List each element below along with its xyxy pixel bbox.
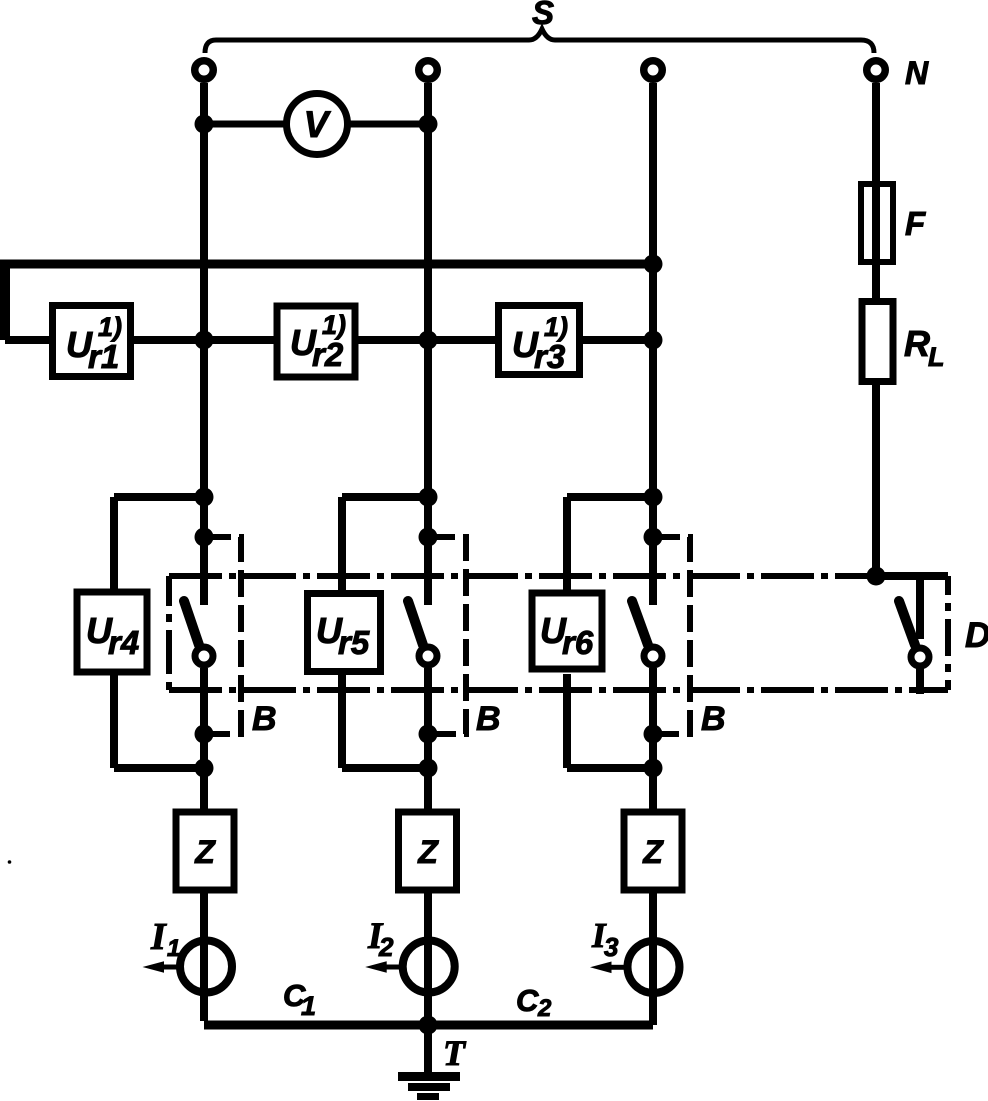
svg-text:D: D bbox=[965, 616, 988, 655]
svg-text:1): 1) bbox=[322, 310, 346, 340]
svg-text:1: 1 bbox=[301, 991, 316, 1021]
svg-text:F: F bbox=[905, 205, 926, 242]
svg-text:r2: r2 bbox=[312, 336, 344, 373]
svg-text:Z: Z bbox=[642, 834, 664, 870]
svg-text:B: B bbox=[252, 700, 277, 738]
svg-text:B: B bbox=[476, 700, 501, 738]
svg-text:r1: r1 bbox=[88, 338, 119, 375]
svg-text:1): 1) bbox=[544, 312, 568, 342]
svg-text:r6: r6 bbox=[562, 624, 594, 661]
svg-text:N: N bbox=[905, 55, 929, 91]
svg-text:V: V bbox=[304, 104, 332, 145]
svg-text:r3: r3 bbox=[534, 338, 565, 375]
svg-text:R: R bbox=[904, 323, 930, 364]
svg-text:C: C bbox=[516, 983, 539, 1018]
svg-text:1: 1 bbox=[167, 935, 180, 962]
svg-text:Z: Z bbox=[194, 834, 216, 870]
svg-text:3: 3 bbox=[604, 932, 619, 962]
svg-text:L: L bbox=[928, 342, 945, 372]
svg-text:I: I bbox=[150, 916, 167, 958]
svg-text:2: 2 bbox=[537, 995, 552, 1022]
svg-text:2: 2 bbox=[378, 932, 394, 962]
svg-text:T: T bbox=[443, 1033, 467, 1073]
svg-text:r4: r4 bbox=[108, 624, 139, 661]
svg-text:r5: r5 bbox=[338, 624, 370, 661]
svg-text:B: B bbox=[701, 700, 726, 738]
svg-text:Z: Z bbox=[417, 834, 439, 870]
svg-text:1): 1) bbox=[98, 312, 122, 342]
svg-text:S: S bbox=[532, 0, 554, 31]
